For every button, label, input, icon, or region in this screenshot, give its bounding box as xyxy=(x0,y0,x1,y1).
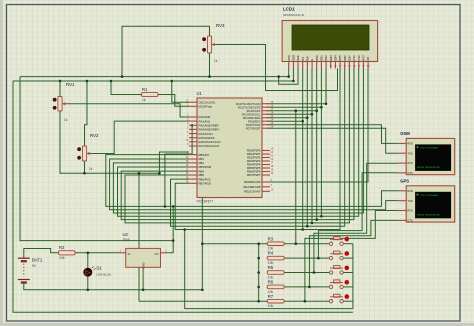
svg-text:CTS: CTS xyxy=(407,171,412,175)
microcontroller U1 PIC16F877 xyxy=(197,91,263,203)
junction rs-land xyxy=(301,228,304,231)
svg-text:CS2: CS2 xyxy=(357,55,361,61)
svg-text:LED-BLUE: LED-BLUE xyxy=(97,273,112,277)
svg-text:R1: R1 xyxy=(142,87,148,92)
svg-text:XMODE YMODE ZMODE: XMODE YMODE ZMODE xyxy=(417,167,441,169)
U1 left pin 37 RB4 xyxy=(186,168,205,173)
junction key3 tap xyxy=(313,271,316,274)
wire keys left rail drop xyxy=(138,173,140,301)
svg-text:RE0/RD/AN5: RE0/RD/AN5 xyxy=(244,180,261,184)
wire keys feed row xyxy=(202,243,267,245)
resistor R5 xyxy=(267,265,284,279)
junction U2 gnd xyxy=(142,289,145,292)
U1 left pin 35 RB2 xyxy=(186,160,205,165)
wire keys feed drop xyxy=(201,198,203,290)
junction rc5-rs xyxy=(301,120,304,123)
U1 right pin 24 RC5/SDO xyxy=(248,118,274,123)
wire RC7 to GSM TXD xyxy=(267,128,398,153)
wire LCD D1 drop xyxy=(320,69,322,217)
wire keys left rail xyxy=(258,244,260,302)
svg-text:VO: VO xyxy=(154,252,159,256)
svg-text:D1: D1 xyxy=(97,266,103,271)
wire OSC1 feed xyxy=(172,81,189,102)
svg-text:XMODE YMODE ZMODE: XMODE YMODE ZMODE xyxy=(417,214,441,216)
junction key2 tap xyxy=(317,257,320,260)
resistor R7 xyxy=(267,294,284,308)
svg-text:RD7/PSP7: RD7/PSP7 xyxy=(247,173,261,177)
U1 right pin 22 RD3/PSP3 xyxy=(247,158,274,163)
junction rail r6 xyxy=(257,286,260,289)
wire RB2 run xyxy=(113,69,363,214)
svg-text:GND: GND xyxy=(142,262,146,268)
resistor R1 xyxy=(141,87,158,102)
svg-text:DB6: DB6 xyxy=(343,55,347,61)
U1 right pin 20 RD1/PSP1 xyxy=(247,151,274,156)
wire key2 row right xyxy=(343,257,353,259)
wire LCD VEE jog xyxy=(279,69,298,85)
junction VSS-R1 xyxy=(110,80,113,83)
junction keys feed b xyxy=(201,289,204,292)
LCD pin 8 DB1 xyxy=(319,55,323,69)
svg-text:VDD: VDD xyxy=(291,55,295,61)
U1 left pin 13 OSC1/CLKIN xyxy=(186,99,215,104)
U1 right pin 21 RD2/PSP2 xyxy=(247,155,274,160)
wire left power drop x20 xyxy=(20,77,173,241)
wire RB4 run xyxy=(121,69,354,220)
junction d0-land xyxy=(315,218,318,221)
wire R7 row feed xyxy=(139,300,267,302)
junction rc4-rw xyxy=(306,116,309,119)
wire GPS TXD riser xyxy=(386,201,399,210)
svg-text:CS1: CS1 xyxy=(352,55,356,61)
LCD pin 14 DB7 xyxy=(348,55,352,69)
junction lcd jog xyxy=(277,75,280,78)
svg-text:PIC16F877: PIC16F877 xyxy=(197,199,214,203)
junction D1 bottom xyxy=(87,289,90,292)
U1 left pin 5 RA3/AN3/VREF+ xyxy=(187,127,220,132)
wire RV bottoms to RB0 link xyxy=(159,152,189,173)
svg-text:RS: RS xyxy=(301,57,305,61)
U1 right pin 23 RC4/SDI/SDA xyxy=(243,115,274,120)
push button KEY5 xyxy=(329,294,349,303)
U1 left pin 1 MCLR/Vpp xyxy=(187,104,212,109)
junction keys feed a xyxy=(201,242,204,245)
wire D1 cathode xyxy=(87,277,89,290)
svg-text:DB0: DB0 xyxy=(315,55,319,61)
svg-text:TXD: TXD xyxy=(407,151,412,155)
svg-text:MCLR/Vpp: MCLR/Vpp xyxy=(199,105,213,109)
wire RC3 link xyxy=(267,113,312,115)
wire RC5 link xyxy=(267,120,303,122)
wire RC2 link xyxy=(267,110,317,112)
wire GPS CTS to key4 xyxy=(309,220,398,287)
svg-text:VT52 VT100 ANSI: VT52 VT100 ANSI xyxy=(420,194,438,197)
junction VO rail xyxy=(172,239,175,242)
U1 left pin 9 RA7/OSC1/CLKI xyxy=(187,143,219,148)
wire RV3 bottom xyxy=(209,53,211,77)
junction RV2 bottom xyxy=(83,172,86,175)
LCD pin 2 VDD xyxy=(291,55,295,69)
wire ground rail bottom xyxy=(24,283,203,290)
U1 right pin 19 RD0/PSP0 xyxy=(247,148,274,153)
wire RB7 run xyxy=(175,69,340,230)
U1 right pin 17 RC2/CCP1 xyxy=(247,108,274,113)
wire R1 left xyxy=(111,81,141,95)
svg-text:LCD1: LCD1 xyxy=(283,7,295,12)
U1 left pin 7 RA5/AN4/SS xyxy=(187,135,215,140)
svg-text:1k: 1k xyxy=(142,98,146,102)
svg-text:1k: 1k xyxy=(214,59,218,63)
LCD pin 6 E xyxy=(310,59,314,69)
junction VSS-OSC1 xyxy=(171,80,174,83)
battery BAT1 xyxy=(18,258,43,283)
svg-text:VT52 VT100 ANSI: VT52 VT100 ANSI xyxy=(420,147,438,150)
junction keys drop xyxy=(138,172,141,175)
resistor R3 xyxy=(267,236,284,250)
wire RV2 bottom xyxy=(84,161,86,173)
LCD pin 11 DB4 xyxy=(334,55,338,69)
junction e-land xyxy=(311,222,314,225)
junction rail r4 xyxy=(257,257,260,260)
GPS module (virtual terminal) xyxy=(398,178,455,222)
svg-text:DB2: DB2 xyxy=(324,55,328,61)
potentiometer RV2 xyxy=(77,133,99,171)
potentiometer RV1 xyxy=(53,82,75,122)
junction key1 tap xyxy=(295,242,298,245)
svg-text:10k: 10k xyxy=(268,304,274,308)
junction D1 top xyxy=(87,252,90,255)
wire D1 anode xyxy=(87,253,89,269)
junction keys bottom xyxy=(183,228,186,231)
junction keys rail top xyxy=(257,242,260,245)
wire RB1 run xyxy=(110,159,386,210)
wire RB3 run xyxy=(118,69,359,217)
U1 right pin 27 RD4/PSP4 xyxy=(247,162,274,167)
svg-text:CTS: CTS xyxy=(407,218,412,222)
svg-text:RE2/CS/AN7: RE2/CS/AN7 xyxy=(244,190,261,194)
wire RC1 link xyxy=(267,106,322,108)
junction rc1-d1 xyxy=(320,106,323,109)
svg-text:U2: U2 xyxy=(123,232,129,237)
wire RA2 tap drop xyxy=(165,125,192,206)
wire keys col1 drop xyxy=(295,111,297,244)
U1 right pin 25 RC6/TX/CK xyxy=(246,122,274,127)
svg-text:RTS: RTS xyxy=(407,209,412,213)
svg-text:VI: VI xyxy=(128,252,131,256)
LCD pin 1 VSS xyxy=(287,55,291,68)
wire GPS RTS to key5 xyxy=(305,211,398,302)
svg-text:R7: R7 xyxy=(268,294,274,299)
wire LCD p18 to RE0 xyxy=(267,69,368,183)
junction key4 tap xyxy=(308,286,311,289)
U1 right pin 30 RD7/PSP7 xyxy=(247,172,274,177)
svg-text:VSS: VSS xyxy=(287,55,291,61)
wire U2 GND drop xyxy=(142,273,144,290)
svg-text:RV1: RV1 xyxy=(66,82,75,87)
svg-text:HDM32GS12-B: HDM32GS12-B xyxy=(283,13,304,17)
wire RB6 run xyxy=(171,69,345,227)
wire GSM RTS to key3 xyxy=(314,163,398,272)
U1 right pin 28 RD5/PSP5 xyxy=(247,165,274,170)
U1 right pin 18 RC3/SCK/SCL xyxy=(242,111,274,116)
wire LCD VSS drop xyxy=(288,69,290,77)
wire U2 VO net xyxy=(167,206,174,252)
LCD pin 10 DB3 xyxy=(329,55,333,69)
wire GSM CTS to key2 xyxy=(318,173,398,258)
svg-text:R3: R3 xyxy=(268,236,274,241)
svg-text:BAT1: BAT1 xyxy=(32,258,43,263)
LCD display LCD1 HDM32GS12 xyxy=(282,7,378,62)
svg-text:1k: 1k xyxy=(89,167,93,171)
U1 left pin 10 RA6/OSC2/CLKO xyxy=(186,139,222,144)
U1 right pin 29 RD6/PSP6 xyxy=(247,169,274,174)
LCD pin 4 RS xyxy=(301,57,305,69)
LCD pin 3 VEE xyxy=(296,55,300,68)
wire keys right rail xyxy=(352,244,354,309)
wire LCD RW drop xyxy=(306,69,308,227)
LED D1 xyxy=(84,266,111,277)
voltage regulator U2 7805 xyxy=(120,232,168,273)
wire RV3 top feed xyxy=(122,26,210,76)
svg-text:TXD: TXD xyxy=(407,199,412,203)
U1 right pin 9 RE1/WR/AN6 xyxy=(243,184,272,189)
U1 right pin 16 RC1/T1OSI/CCP2 xyxy=(238,104,274,109)
junction lcd vdd xyxy=(292,80,295,83)
wire key4 row left xyxy=(284,286,329,288)
U1 left pin 34 RB1 xyxy=(186,156,205,161)
svg-text:1k: 1k xyxy=(64,118,68,122)
svg-text:RXD: RXD xyxy=(407,142,413,146)
wire RV1 wiper to RA0 xyxy=(66,104,189,117)
svg-text:RTS: RTS xyxy=(407,161,412,165)
svg-text:RE1/WR/AN6: RE1/WR/AN6 xyxy=(243,185,261,189)
U1 left pin 2 RA0/AN0 xyxy=(187,114,210,119)
wire GPS RXD riser xyxy=(382,191,399,207)
GSM module (virtual terminal) xyxy=(398,131,455,175)
LCD pin 17 RST xyxy=(362,55,366,69)
LCD pin 12 DB5 xyxy=(338,55,342,69)
svg-text:R4: R4 xyxy=(268,251,274,256)
wire key4 row right xyxy=(343,286,353,288)
svg-text:GSM: GSM xyxy=(400,131,410,136)
svg-text:RXD: RXD xyxy=(407,189,413,193)
wire RC4 link xyxy=(267,117,308,119)
LCD pin 5 RW xyxy=(305,56,309,69)
U1 right pin 15 RC0/T1OSO/T1CKI xyxy=(236,101,274,106)
junction rail r5 xyxy=(257,271,260,274)
svg-text:RV2: RV2 xyxy=(90,133,99,138)
svg-text:RB7/PGD: RB7/PGD xyxy=(199,182,211,186)
wire RC0 link xyxy=(267,103,326,105)
wire RB5 run xyxy=(125,69,349,223)
junction ra2 tap xyxy=(191,124,194,127)
junction rw-land xyxy=(306,225,309,228)
wire net VDD top rail xyxy=(20,76,289,78)
LCD pin 16 CS2 xyxy=(357,55,361,69)
svg-text:RW: RW xyxy=(305,56,309,61)
junction z link xyxy=(158,172,161,175)
svg-text:R2: R2 xyxy=(59,245,65,250)
wire battery top to R2 xyxy=(24,249,51,259)
junction VSS-RV1 xyxy=(59,80,62,83)
svg-text:RB0/INT: RB0/INT xyxy=(199,153,210,157)
wire key3 row left xyxy=(284,272,329,274)
junction d1-land xyxy=(320,215,323,218)
U1 left pin 6 RA4/T0CKI xyxy=(187,131,213,136)
U1 left pin 3 RA1/AN1 xyxy=(187,118,210,123)
svg-text:DB7: DB7 xyxy=(348,55,352,61)
svg-text:DB1: DB1 xyxy=(319,55,323,61)
svg-text:10k: 10k xyxy=(59,256,65,260)
U1 right pin 10 RE2/CS/AN7 xyxy=(244,189,274,194)
U1 left pin 40 RB7/PGD xyxy=(186,181,211,186)
svg-text:R5: R5 xyxy=(268,265,274,270)
wire left ground loop xyxy=(13,81,353,312)
LCD pin 9 DB2 xyxy=(324,55,328,69)
LCD pin 18 VO xyxy=(366,56,370,69)
junction col1-top xyxy=(295,109,298,112)
svg-text:DB5: DB5 xyxy=(338,55,342,61)
push button KEY1 xyxy=(329,237,349,246)
U1 right pin 8 RE0/RD/AN5 xyxy=(244,179,272,184)
svg-text:7805: 7805 xyxy=(123,238,130,242)
svg-text:RA7/OSC1/CLKI: RA7/OSC1/CLKI xyxy=(199,144,220,148)
svg-text:GPS: GPS xyxy=(400,178,409,183)
wire key1 row right xyxy=(343,243,353,245)
LCD pin 13 DB6 xyxy=(343,55,347,69)
wire LCD E drop xyxy=(311,69,313,223)
svg-text:RV3: RV3 xyxy=(216,23,225,28)
push button KEY3 xyxy=(329,266,349,275)
wire RV1 bottom xyxy=(60,111,159,173)
junction rc3-e xyxy=(311,113,314,116)
U1 left pin 33 RB0/INT xyxy=(186,152,210,157)
wire RV2 wiper to RA1 xyxy=(91,121,190,153)
wire RB0 run xyxy=(106,155,382,207)
push button KEY4 xyxy=(329,280,349,289)
junction VO top xyxy=(172,205,175,208)
wire RV3 wiper to LCD VEE xyxy=(216,45,338,91)
resistor R4 xyxy=(267,251,284,265)
U1 left pin 38 RB5 xyxy=(186,172,205,177)
svg-text:RC7/RX/DT: RC7/RX/DT xyxy=(246,126,261,130)
wire mid drop to keys bottom xyxy=(185,230,353,309)
svg-text:E: E xyxy=(310,59,314,61)
LCD pin 15 CS1 xyxy=(352,55,356,69)
wire R1 right to MCLR xyxy=(158,95,189,107)
svg-text:R6: R6 xyxy=(268,280,274,285)
junction lcd vss xyxy=(287,75,290,78)
wire key2 row left xyxy=(284,257,329,259)
wire key5 row left xyxy=(284,300,329,302)
junction R7 rail xyxy=(257,300,260,303)
junction ra2 land xyxy=(164,205,167,208)
wire net VSS rail xyxy=(13,80,293,82)
resistor R2 xyxy=(59,245,76,260)
wire LCD VDD drop xyxy=(292,69,294,82)
wire LCD D0 drop xyxy=(316,69,318,220)
U1 left pin 36 RB3/PGM xyxy=(186,164,212,169)
wire LCD D2 drop xyxy=(325,69,327,104)
svg-text:DB3: DB3 xyxy=(329,55,333,61)
push button KEY2 xyxy=(329,251,349,260)
junction VDD-RV3bot xyxy=(208,75,211,78)
wire key3 row right xyxy=(343,272,353,274)
junction VDD-RV3top xyxy=(121,75,124,78)
junction key5 tap xyxy=(304,300,307,303)
svg-text:RST: RST xyxy=(362,55,366,61)
wire RC6 to GSM RXD xyxy=(267,125,398,144)
wire RV1 top xyxy=(59,81,61,97)
wire key5 row right xyxy=(343,300,353,302)
U1 left pin 4 RA2/AN2/VREF- xyxy=(187,123,219,128)
U1 right pin 26 RC7/RX/DT xyxy=(246,125,274,130)
wire LCD RS drop xyxy=(302,69,304,230)
U1 left pin 39 RB6/PGC xyxy=(186,176,211,181)
wire key1 row left xyxy=(284,243,329,245)
junction rc2-d0 xyxy=(315,109,318,112)
junction rc0-d2 xyxy=(325,102,328,105)
svg-text:VEE: VEE xyxy=(296,55,300,61)
resistor R6 xyxy=(267,280,284,294)
junction VSS-RV2 xyxy=(86,80,89,83)
LCD pin 7 DB0 xyxy=(315,55,319,69)
wire RV2 top feed xyxy=(85,81,88,146)
svg-text:U1: U1 xyxy=(197,91,203,96)
potentiometer RV3 xyxy=(202,23,225,63)
svg-text:DB4: DB4 xyxy=(334,55,338,61)
wire R2 to U2 VI xyxy=(51,252,120,254)
